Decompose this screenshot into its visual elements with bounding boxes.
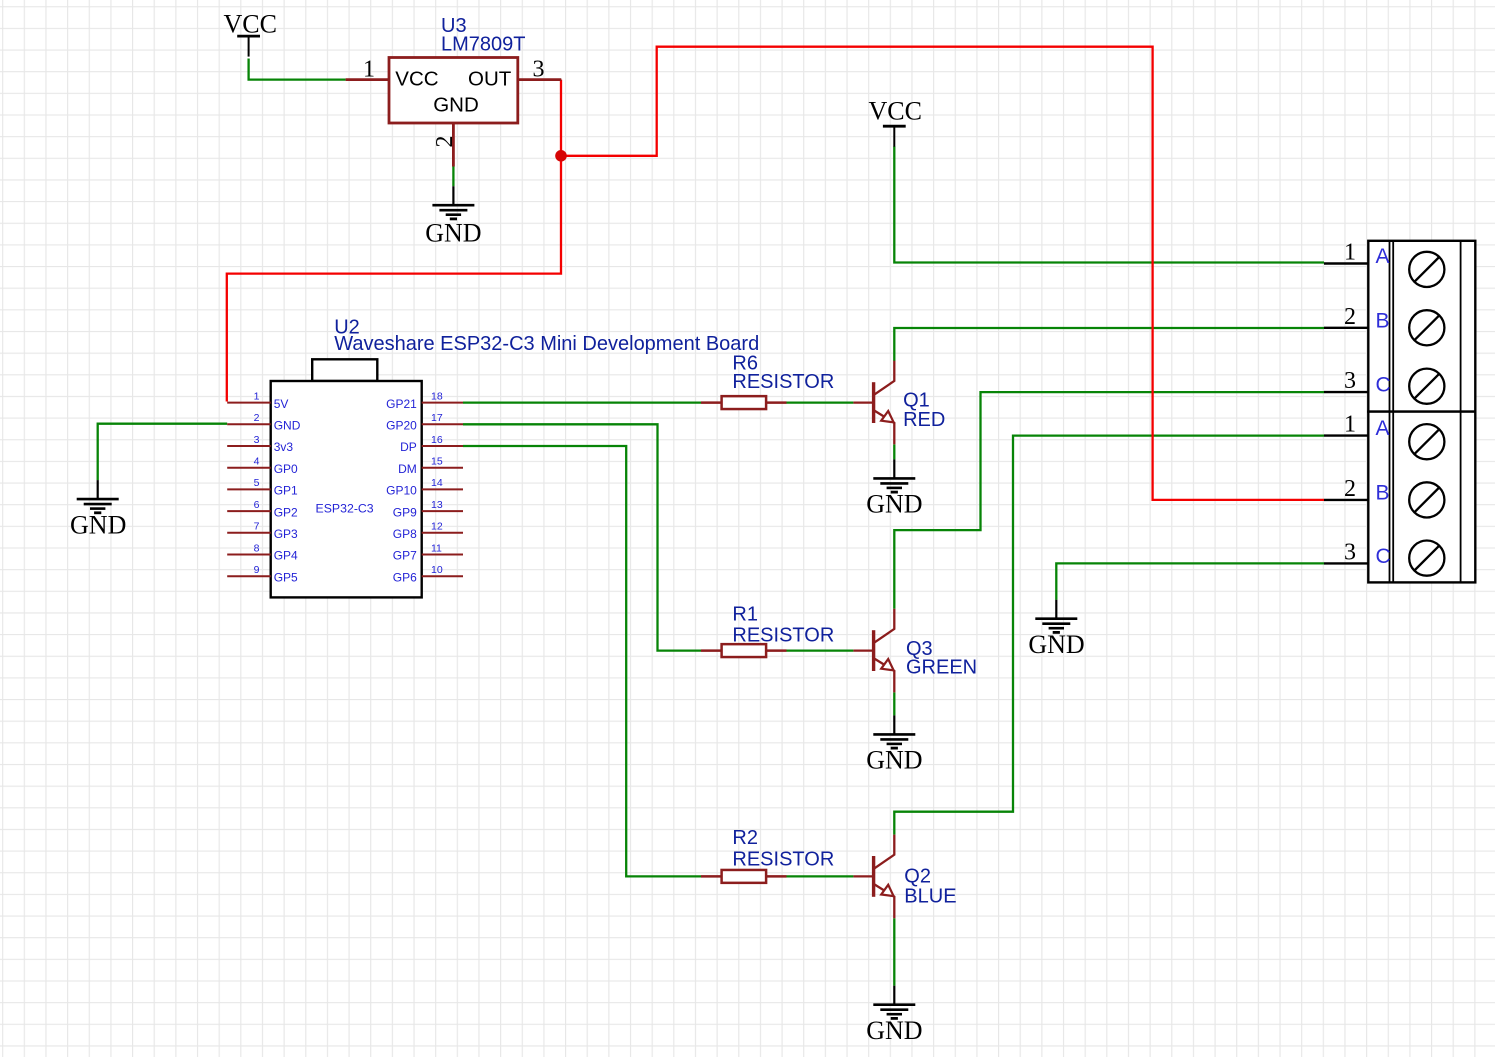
svg-text:16: 16 bbox=[431, 434, 443, 446]
svg-text:3: 3 bbox=[1344, 539, 1356, 565]
svg-text:C: C bbox=[1376, 545, 1391, 568]
svg-text:GP0: GP0 bbox=[274, 462, 298, 476]
svg-text:R1: R1 bbox=[732, 603, 758, 625]
svg-text:10: 10 bbox=[431, 564, 443, 576]
svg-text:Q2: Q2 bbox=[904, 866, 931, 888]
svg-text:GREEN: GREEN bbox=[906, 657, 977, 679]
svg-text:17: 17 bbox=[431, 412, 443, 424]
svg-text:ESP32-C3: ESP32-C3 bbox=[316, 502, 374, 516]
svg-text:GND: GND bbox=[866, 1016, 922, 1045]
svg-text:DP: DP bbox=[400, 440, 417, 454]
svg-text:RESISTOR: RESISTOR bbox=[732, 371, 834, 393]
svg-text:1: 1 bbox=[254, 390, 260, 402]
svg-text:GP6: GP6 bbox=[393, 570, 417, 584]
svg-text:RESISTOR: RESISTOR bbox=[732, 849, 834, 871]
svg-text:A: A bbox=[1376, 245, 1390, 268]
svg-text:8: 8 bbox=[254, 542, 260, 554]
svg-text:LM7809T: LM7809T bbox=[441, 33, 526, 55]
svg-text:B: B bbox=[1376, 309, 1390, 332]
svg-text:RED: RED bbox=[903, 409, 945, 431]
svg-text:1: 1 bbox=[1344, 412, 1356, 438]
svg-text:GP8: GP8 bbox=[393, 527, 417, 541]
svg-text:18: 18 bbox=[431, 390, 443, 402]
svg-text:9: 9 bbox=[254, 564, 260, 576]
svg-text:GP10: GP10 bbox=[386, 484, 417, 498]
svg-text:4: 4 bbox=[254, 456, 260, 468]
svg-text:GP4: GP4 bbox=[274, 549, 298, 563]
svg-text:A: A bbox=[1376, 417, 1390, 440]
svg-text:GP20: GP20 bbox=[386, 419, 417, 433]
svg-text:3: 3 bbox=[1344, 368, 1356, 394]
svg-text:5V: 5V bbox=[274, 397, 289, 411]
svg-text:15: 15 bbox=[431, 456, 443, 468]
svg-text:3: 3 bbox=[533, 57, 545, 83]
svg-text:3: 3 bbox=[254, 434, 260, 446]
svg-text:GND: GND bbox=[433, 93, 479, 116]
svg-text:GND: GND bbox=[1028, 630, 1084, 659]
svg-text:GP7: GP7 bbox=[393, 549, 417, 563]
svg-text:GND: GND bbox=[70, 511, 126, 540]
svg-text:2: 2 bbox=[1344, 304, 1356, 330]
svg-text:6: 6 bbox=[254, 499, 260, 511]
svg-text:2: 2 bbox=[254, 412, 260, 424]
svg-text:2: 2 bbox=[432, 136, 458, 148]
svg-text:DM: DM bbox=[398, 462, 417, 476]
svg-text:2: 2 bbox=[1344, 476, 1356, 502]
svg-text:VCC: VCC bbox=[395, 68, 438, 91]
svg-text:GP9: GP9 bbox=[393, 505, 417, 519]
svg-text:RESISTOR: RESISTOR bbox=[732, 625, 834, 647]
svg-text:GND: GND bbox=[866, 489, 922, 518]
svg-text:GP21: GP21 bbox=[386, 397, 417, 411]
svg-text:1: 1 bbox=[1344, 240, 1356, 266]
svg-text:BLUE: BLUE bbox=[904, 886, 956, 908]
svg-text:B: B bbox=[1376, 481, 1390, 504]
svg-text:OUT: OUT bbox=[468, 68, 512, 91]
svg-text:GP1: GP1 bbox=[274, 484, 298, 498]
svg-text:GND: GND bbox=[274, 419, 301, 433]
svg-text:1: 1 bbox=[363, 57, 375, 83]
svg-text:GND: GND bbox=[866, 746, 922, 775]
svg-text:GP5: GP5 bbox=[274, 570, 298, 584]
svg-text:11: 11 bbox=[431, 542, 442, 554]
svg-text:Waveshare ESP32-C3 Mini Develo: Waveshare ESP32-C3 Mini Development Boar… bbox=[334, 333, 759, 355]
svg-text:3v3: 3v3 bbox=[274, 440, 294, 454]
svg-text:VCC: VCC bbox=[223, 10, 276, 39]
svg-text:12: 12 bbox=[431, 521, 443, 533]
svg-text:VCC: VCC bbox=[868, 96, 921, 125]
svg-text:5: 5 bbox=[254, 477, 260, 489]
svg-text:13: 13 bbox=[431, 499, 443, 511]
svg-text:14: 14 bbox=[431, 477, 443, 489]
svg-text:7: 7 bbox=[254, 521, 260, 533]
svg-text:GND: GND bbox=[425, 219, 481, 248]
svg-text:C: C bbox=[1376, 374, 1391, 397]
svg-text:GP3: GP3 bbox=[274, 527, 298, 541]
svg-text:R2: R2 bbox=[732, 827, 758, 849]
svg-text:GP2: GP2 bbox=[274, 505, 298, 519]
